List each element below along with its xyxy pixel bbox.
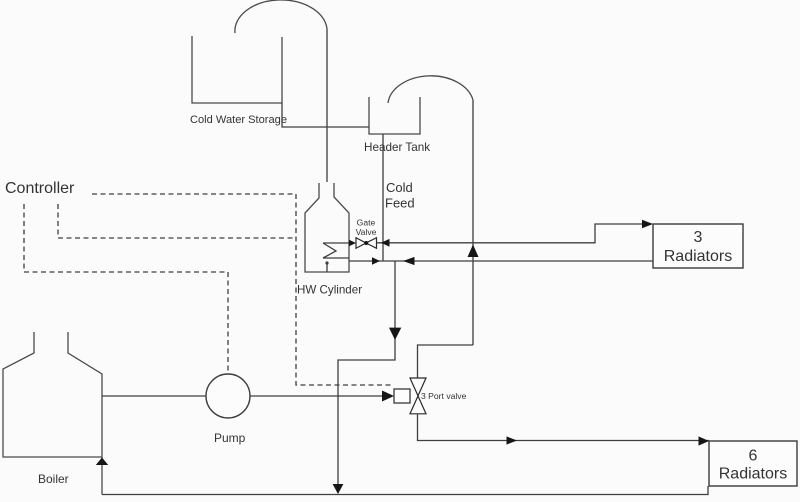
- arrow into gate valve: [349, 240, 356, 246]
- wire: boiler to pump: [102, 395, 206, 397]
- svg-text:6: 6: [749, 448, 758, 465]
- wire: cold water storage outlet to header tank: [282, 103, 369, 127]
- coil bottom pipe: [323, 257, 349, 259]
- pump P1: [206, 374, 250, 418]
- gate valve GV1: [356, 238, 377, 249]
- svg-text:3 Port valve: 3 Port valve: [421, 391, 467, 401]
- wire: 3 port valve to 6 radiators: [418, 414, 710, 441]
- controller wire to pump: [24, 204, 228, 374]
- wire: vent arc over cold water storage: [235, 0, 327, 33]
- arrow up on riser: [468, 245, 479, 258]
- boiler B1: [3, 332, 102, 495]
- arrow right on return: [372, 257, 380, 264]
- controller wire to cylinder stat: [58, 204, 296, 238]
- cold water storage tank: [192, 36, 282, 103]
- svg-text:Valve: Valve: [356, 227, 377, 237]
- 3 radiators box: [653, 224, 743, 268]
- wire: riser to 3 port valve: [418, 345, 474, 378]
- arrow mid-run to 6 radiators: [507, 436, 518, 444]
- wire: return drop to bottom return: [338, 261, 395, 493]
- cylinder inlet stub: [326, 264, 328, 273]
- svg-text:Header Tank: Header Tank: [364, 141, 430, 154]
- svg-text:3: 3: [694, 229, 703, 246]
- wire: cold feed from header tank: [382, 134, 384, 261]
- coil zigzag: [323, 243, 336, 258]
- wire: vent/heating riser down: [472, 100, 474, 345]
- arrow into 3 radiators: [642, 220, 653, 228]
- 6 radiators box: [709, 441, 797, 486]
- arrow down on drop: [389, 328, 401, 340]
- header tank: [369, 97, 420, 134]
- svg-text:Pump: Pump: [214, 431, 246, 445]
- svg-text:Radiators: Radiators: [719, 466, 787, 483]
- 3 port valve V1: [394, 378, 426, 414]
- wire: HW/radiator return line: [349, 260, 653, 262]
- svg-text:Feed: Feed: [385, 196, 415, 211]
- wire: bottom return main: [102, 486, 708, 495]
- arrow left on return from radiators: [403, 257, 415, 265]
- wire: vent arc over header tank: [388, 76, 473, 103]
- wire: heating flow line to 3 radiators: [377, 224, 644, 243]
- wire: vent pipe down to HW cylinder: [326, 29, 328, 182]
- svg-text:Boiler: Boiler: [38, 472, 69, 486]
- arrow toward gate valve: [381, 239, 390, 247]
- wire: pump discharge to 3 port valve: [250, 395, 382, 397]
- HW cylinder U1: [305, 183, 349, 272]
- svg-text:HW Cylinder: HW Cylinder: [297, 284, 362, 297]
- controller wire to 3 port valve: [92, 194, 394, 385]
- arrow into 6 radiators: [699, 436, 710, 445]
- arrow into 3 port valve: [382, 391, 394, 402]
- svg-text:Radiators: Radiators: [664, 248, 732, 265]
- arrow down at bottom return junction: [333, 484, 344, 494]
- svg-text:Controller: Controller: [5, 180, 75, 197]
- coil top pipe in cylinder: [323, 242, 351, 244]
- arrow up into boiler: [96, 458, 108, 466]
- svg-text:Cold Water Storage: Cold Water Storage: [190, 114, 287, 126]
- svg-text:Cold: Cold: [386, 180, 413, 195]
